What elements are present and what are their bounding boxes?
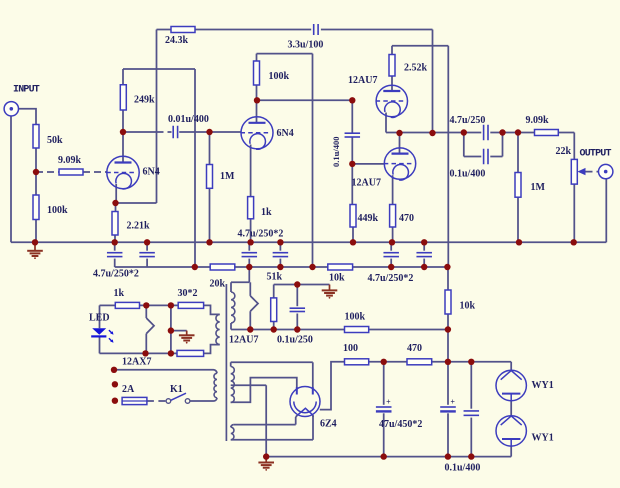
svg-text:2.52k: 2.52k xyxy=(404,63,428,74)
svg-text:47u/450*2: 47u/450*2 xyxy=(379,419,422,430)
svg-text:100k: 100k xyxy=(269,71,290,82)
svg-text:2.21k: 2.21k xyxy=(127,221,151,232)
svg-text:100k: 100k xyxy=(47,205,68,216)
svg-text:12AU7: 12AU7 xyxy=(229,335,258,346)
svg-text:WY1: WY1 xyxy=(532,433,554,444)
svg-text:0.1u/400: 0.1u/400 xyxy=(331,137,341,167)
svg-text:0.01u/400: 0.01u/400 xyxy=(168,114,209,125)
svg-text:INPUT: INPUT xyxy=(13,85,40,96)
svg-text:1k: 1k xyxy=(114,288,125,299)
svg-text:4.7u/250: 4.7u/250 xyxy=(450,115,486,126)
svg-text:12AX7: 12AX7 xyxy=(122,357,151,368)
svg-text:0.1u/250: 0.1u/250 xyxy=(277,335,313,346)
svg-text:50k: 50k xyxy=(47,135,63,146)
svg-text:10k: 10k xyxy=(460,301,476,312)
svg-text:100: 100 xyxy=(343,343,358,354)
svg-text:1k: 1k xyxy=(261,207,272,218)
svg-text:4.7u/250*2: 4.7u/250*2 xyxy=(368,273,414,284)
svg-text:470: 470 xyxy=(399,213,414,224)
svg-text:WY1: WY1 xyxy=(532,380,554,391)
svg-text:4.7u/250*2: 4.7u/250*2 xyxy=(93,269,139,280)
svg-text:3.3u/100: 3.3u/100 xyxy=(288,40,324,51)
svg-text:9.09k: 9.09k xyxy=(58,155,82,166)
svg-text:12AU7: 12AU7 xyxy=(348,75,377,86)
svg-text:6N4: 6N4 xyxy=(277,128,294,139)
svg-text:249k: 249k xyxy=(134,95,155,106)
svg-text:9.09k: 9.09k xyxy=(526,115,550,126)
svg-text:1M: 1M xyxy=(220,171,235,182)
svg-text:12AU7: 12AU7 xyxy=(352,178,381,189)
svg-text:OUTPUT: OUTPUT xyxy=(580,149,612,160)
svg-text:LED: LED xyxy=(89,313,110,324)
svg-text:470: 470 xyxy=(407,343,422,354)
svg-text:24.3k: 24.3k xyxy=(165,35,189,46)
svg-text:30*2: 30*2 xyxy=(178,288,198,299)
svg-text:20k: 20k xyxy=(210,279,226,290)
svg-text:6Z4: 6Z4 xyxy=(320,419,337,430)
svg-text:100k: 100k xyxy=(345,312,366,323)
svg-text:1M: 1M xyxy=(531,182,546,193)
svg-text:0.1u/400: 0.1u/400 xyxy=(445,463,481,474)
svg-text:2A: 2A xyxy=(122,384,135,395)
svg-text:6N4: 6N4 xyxy=(143,167,160,178)
svg-text:+: + xyxy=(450,398,455,407)
svg-text:K1: K1 xyxy=(170,384,183,395)
svg-text:4.7u/250*2: 4.7u/250*2 xyxy=(238,229,284,240)
svg-text:449k: 449k xyxy=(358,213,379,224)
svg-text:0.1u/400: 0.1u/400 xyxy=(450,169,486,180)
svg-text:10k: 10k xyxy=(329,273,345,284)
svg-text:51k: 51k xyxy=(267,272,283,283)
svg-text:+: + xyxy=(386,398,391,407)
svg-text:22k: 22k xyxy=(556,146,572,157)
